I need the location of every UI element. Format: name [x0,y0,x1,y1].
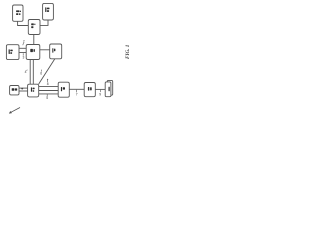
wire B to C [40,20,48,25]
lead tick right of bus [40,70,42,72]
box H driver unit [28,84,39,97]
lead tick below D-E lower wire [22,53,24,55]
svg-text:FIG. 1: FIG. 1 [125,44,131,59]
box B sensor unit [43,3,54,20]
text blob box B row2 [47,10,49,12]
box J display unit [84,83,95,97]
box K card stack back [107,80,113,95]
svg-text:7: 7 [76,93,78,97]
text blob box A row2 [16,13,18,15]
arrow 100 lead line [10,108,20,113]
wire J to K [96,88,106,90]
wire H to I lower [39,90,59,92]
lead tick below wire I-J [75,90,77,93]
text blob box J row [88,87,89,91]
text blob box D row2 [10,52,12,54]
lead tick on diagonal [47,79,48,82]
svg-text:5: 5 [46,96,48,100]
svg-text:8: 8 [47,82,49,86]
svg-text:6: 6 [40,71,42,75]
lead tick near D top [22,43,25,45]
box G speaker [10,86,19,95]
box D memory unit [6,45,19,60]
wire A to C [18,21,29,25]
lead tick left of bus [26,69,27,72]
text blob box C row2 [31,26,33,28]
text blob box D row1 [9,49,10,54]
wire bus E to H left [29,60,31,85]
text blob box A row1 [16,10,19,12]
box K card stack front [105,82,111,97]
text blob box K vertical [109,87,110,91]
text blob box I row [61,87,62,91]
wire C to E [33,35,35,45]
wire G to H upper [19,87,28,89]
text blob box H row1 [31,87,32,91]
text blob box F row [52,48,53,52]
box C control unit [28,20,40,35]
arrowhead 100 [9,111,12,114]
wire G to H lower [19,90,28,92]
text blob box G row [12,88,15,91]
svg-text:3: 3 [23,56,25,60]
text blob box E row [30,49,33,52]
svg-text:9: 9 [99,92,101,96]
box I output unit [58,82,69,97]
box E processor [26,45,40,60]
wire I to J [69,88,84,90]
wire diagonal F to H [39,59,55,84]
wire D to E lower [19,52,26,54]
wire E to F [39,49,49,51]
text blob box C row1 [31,23,34,25]
junction blob on wire G-H [21,88,23,90]
lead tick below wire J-K [99,90,101,92]
lead tick below wire H-I [46,94,48,97]
text blob box B row1 [45,7,46,12]
box F interface unit [50,44,62,59]
svg-text:2: 2 [23,39,25,43]
text blob box H row2 [33,90,35,92]
wire H to I third [39,93,59,95]
wire H to I upper [39,86,59,88]
box A input unit [13,5,23,21]
svg-text:4: 4 [25,70,27,74]
wire bus E to H right [32,60,34,85]
wire D to E upper [19,47,26,49]
